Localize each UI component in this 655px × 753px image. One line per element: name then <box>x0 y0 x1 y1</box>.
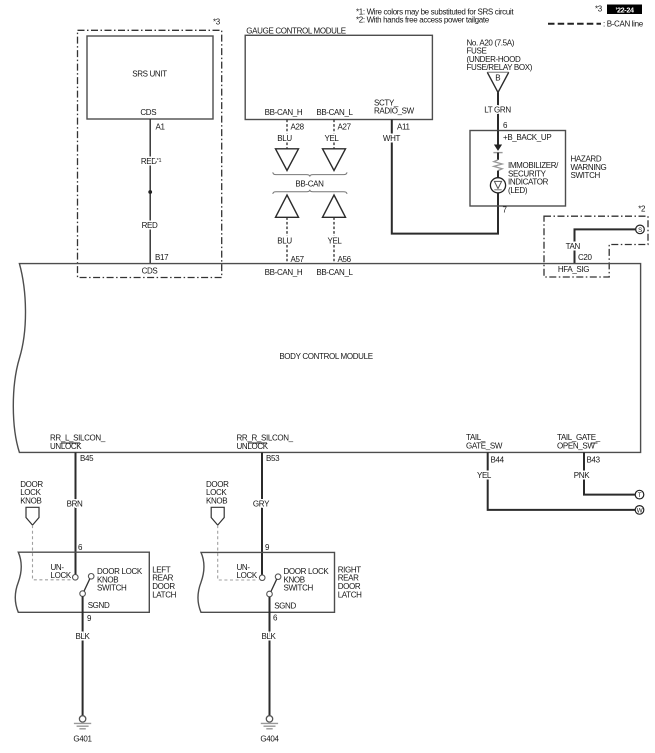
svg-text:BB-CAN_H: BB-CAN_H <box>265 108 303 117</box>
svg-text:B17: B17 <box>155 253 169 262</box>
connector triangle up H <box>276 195 299 217</box>
svg-text:SRS UNIT: SRS UNIT <box>132 70 167 79</box>
svg-text:T: T <box>638 492 642 499</box>
door lock knob left symbol <box>26 507 39 525</box>
svg-text:BODY CONTROL MODULE: BODY CONTROL MODULE <box>279 352 372 361</box>
svg-text:W: W <box>637 507 643 514</box>
svg-text:FUSE/RELAY BOX): FUSE/RELAY BOX) <box>467 63 533 72</box>
svg-text:SGND: SGND <box>88 601 110 610</box>
door lock knob right dashed link <box>218 525 259 580</box>
svg-text:BB-CAN: BB-CAN <box>295 180 324 189</box>
svg-text:CDS: CDS <box>140 108 156 117</box>
wire YEL to W <box>488 452 636 510</box>
svg-text:A57: A57 <box>291 255 305 264</box>
svg-text:YEL: YEL <box>327 237 342 246</box>
connector triangle up L <box>323 195 346 217</box>
switch right: arm <box>271 579 277 591</box>
switch left: common circle <box>80 591 86 597</box>
svg-text:A28: A28 <box>291 123 305 132</box>
gauge control module box <box>245 35 432 119</box>
svg-text:WHT: WHT <box>383 134 401 143</box>
svg-text:GRY: GRY <box>253 499 270 508</box>
svg-text:GAUGE CONTROL MODULE: GAUGE CONTROL MODULE <box>246 26 345 35</box>
svg-text:SGND: SGND <box>274 601 296 610</box>
svg-text:B43: B43 <box>587 455 601 464</box>
page reference box 22-24 <box>607 5 642 15</box>
wire BLK left <box>82 596 84 715</box>
switch right: common circle <box>267 591 273 597</box>
wire BRN <box>75 452 77 574</box>
svg-text:BLU: BLU <box>277 134 292 143</box>
svg-text:A11: A11 <box>397 123 410 132</box>
svg-text:BB-CAN_L: BB-CAN_L <box>316 108 353 117</box>
wire RED A1 to B17 <box>149 119 151 264</box>
connector triangle down L <box>323 149 346 171</box>
svg-text:BB-CAN_L: BB-CAN_L <box>316 268 353 277</box>
brace bottom <box>273 190 347 194</box>
svg-text:A56: A56 <box>338 255 352 264</box>
legend B-CAN dashed line <box>548 23 601 25</box>
ground G401 <box>79 716 85 722</box>
connector T <box>635 490 644 499</box>
svg-text:GATE_SW: GATE_SW <box>466 442 503 451</box>
svg-text:C20: C20 <box>578 253 593 262</box>
switch left: contact circle <box>73 575 79 581</box>
junction on RED wire <box>148 190 152 194</box>
svg-text:B: B <box>495 73 500 82</box>
svg-text:*2: With hands free access pow: *2: With hands free access power tailgat… <box>356 16 490 25</box>
connector triangle down H <box>276 149 299 171</box>
SRS dashed enclosure <box>78 30 222 277</box>
wire LT GRN <box>497 92 499 130</box>
body control module box <box>13 264 640 453</box>
SRS UNIT box <box>87 36 213 119</box>
wire TAN <box>575 229 636 263</box>
door lock knob right symbol <box>211 507 224 525</box>
svg-text:*2: *2 <box>638 205 646 214</box>
svg-text:LT GRN: LT GRN <box>484 105 511 114</box>
svg-text:BLU: BLU <box>277 237 292 246</box>
LED indicator <box>490 178 505 193</box>
svg-text:LOCK: LOCK <box>237 571 258 580</box>
svg-text:*3: *3 <box>213 18 221 27</box>
svg-text:: B-CAN line: : B-CAN line <box>603 20 644 29</box>
connector W <box>635 506 644 515</box>
switch left: throw circle <box>88 574 94 580</box>
fuse symbol B <box>487 71 508 73</box>
svg-text:BB-CAN_H: BB-CAN_H <box>265 268 303 277</box>
svg-text:HFA_SIG: HFA_SIG <box>558 265 589 274</box>
svg-text:LATCH: LATCH <box>152 590 176 599</box>
svg-text:KNOB: KNOB <box>20 496 41 505</box>
svg-text:’22-24: ’22-24 <box>615 5 634 14</box>
svg-text:BLK: BLK <box>261 632 276 641</box>
svg-text:B53: B53 <box>266 454 280 463</box>
svg-text:B44: B44 <box>491 455 505 464</box>
switch right: throw circle <box>275 574 281 580</box>
svg-text:G401: G401 <box>73 734 92 743</box>
svg-text:A27: A27 <box>338 123 352 132</box>
wire WHT from A11 to hazard switch pin 7 <box>392 120 498 234</box>
svg-text:+B_BACK_UP: +B_BACK_UP <box>503 133 551 142</box>
svg-text:KNOB: KNOB <box>206 496 227 505</box>
connector S <box>636 225 645 234</box>
ground G404 <box>266 716 272 722</box>
resistor <box>494 160 502 171</box>
wire diode to resistor <box>497 153 499 160</box>
hands free dashed enclosure <box>544 216 648 277</box>
svg-text:RADIO_SW: RADIO_SW <box>374 107 415 116</box>
svg-text:YEL: YEL <box>324 134 339 143</box>
hazard warning switch box <box>470 131 566 207</box>
svg-text:SWITCH: SWITCH <box>97 584 127 593</box>
svg-text:OPEN_SW: OPEN_SW <box>557 442 595 451</box>
svg-text:LATCH: LATCH <box>338 590 362 599</box>
svg-text:SWITCH: SWITCH <box>284 584 314 593</box>
svg-text:BLK: BLK <box>75 632 90 641</box>
wire BLK right <box>269 597 271 716</box>
wire resistor to LED <box>497 171 499 178</box>
svg-text:TAN: TAN <box>566 242 581 251</box>
svg-text:SWITCH: SWITCH <box>571 171 601 180</box>
svg-text:RED: RED <box>142 221 158 230</box>
internal wire top <box>497 131 499 145</box>
wire GRY <box>261 452 263 575</box>
switch left: arm <box>84 579 90 591</box>
svg-text:YEL: YEL <box>477 471 492 480</box>
diode <box>494 145 502 151</box>
svg-text:(LED): (LED) <box>508 186 528 195</box>
svg-text:*3: *3 <box>595 5 603 14</box>
svg-text:S: S <box>638 227 642 234</box>
right rear door latch box <box>198 552 335 612</box>
dashed B-CAN wire A27 <box>333 120 335 149</box>
svg-text:CDS: CDS <box>142 267 158 276</box>
svg-text:G404: G404 <box>260 734 279 743</box>
svg-text:PNK: PNK <box>574 471 590 480</box>
switch right: contact circle <box>259 575 265 581</box>
dashed B-CAN wire A57 <box>286 217 288 263</box>
brace top <box>273 172 347 176</box>
svg-text:A1: A1 <box>156 123 166 132</box>
svg-text:B45: B45 <box>80 454 94 463</box>
left rear door latch box <box>15 552 149 612</box>
svg-text:LOCK: LOCK <box>51 571 72 580</box>
dashed B-CAN wire A56 <box>333 217 335 263</box>
dashed B-CAN wire A28 <box>286 120 288 149</box>
wire PNK to T <box>584 452 635 494</box>
svg-text:BRN: BRN <box>67 499 83 508</box>
door lock knob left dashed link <box>33 525 72 580</box>
